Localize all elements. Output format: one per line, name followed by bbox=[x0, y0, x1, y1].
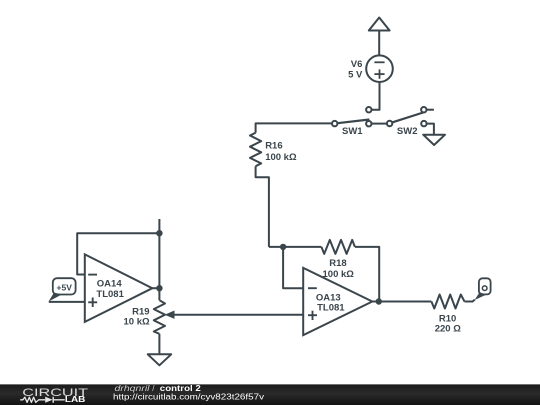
wire R16 bottom to node A bbox=[256, 166, 269, 247]
wire +5V flag to OA14 non-inverting input bbox=[49, 301, 85, 303]
switch SW2 bbox=[387, 107, 427, 126]
resistor R18 bbox=[321, 240, 355, 254]
feedback corner junction dot bbox=[156, 230, 162, 236]
label OA13 TL081 bbox=[316, 292, 345, 313]
node A junction dot bbox=[280, 244, 286, 250]
label R10 value bbox=[435, 313, 461, 334]
resistor R10 bbox=[431, 295, 464, 309]
wire R16 top to SW1 common bbox=[256, 123, 332, 132]
svg-text:100 kΩ: 100 kΩ bbox=[323, 269, 355, 280]
label R19 value bbox=[123, 307, 149, 328]
feedback wire OA14 output to inverting input bbox=[77, 233, 159, 286]
label R18 value bbox=[323, 258, 355, 280]
wire R19 bottom to ground bbox=[158, 334, 160, 355]
label OA14 TL081 bbox=[96, 278, 124, 300]
wire output dot down to R19 bbox=[158, 288, 160, 300]
switch SW1 bbox=[332, 107, 371, 126]
svg-text:TL081: TL081 bbox=[317, 303, 345, 314]
svg-text:SW1: SW1 bbox=[342, 126, 363, 137]
label R16 value bbox=[265, 141, 297, 163]
wire node A to R18 bbox=[269, 246, 322, 248]
power flag arrow (top) bbox=[369, 18, 390, 31]
svg-text:OA14: OA14 bbox=[97, 278, 123, 289]
label V6 value bbox=[348, 59, 363, 81]
footer bar bbox=[0, 384, 540, 405]
wire OA14 output bbox=[152, 287, 159, 289]
wire R18 right to output node bbox=[355, 247, 379, 300]
wire V6 top bbox=[378, 31, 380, 56]
svg-text:SW2: SW2 bbox=[397, 126, 418, 137]
wire SW2 bottom throw to ground bbox=[427, 124, 434, 135]
node flag +5V bbox=[49, 278, 76, 301]
wire V6 bottom to SW1 top throw bbox=[372, 82, 380, 110]
svg-text:5 V: 5 V bbox=[348, 70, 363, 81]
svg-text:+5V: +5V bbox=[57, 283, 73, 293]
resistor R16 bbox=[250, 133, 261, 167]
node flag o (output) bbox=[475, 278, 491, 300]
ground (right) bbox=[423, 135, 445, 145]
footer title text bbox=[115, 384, 202, 393]
stub wire SW2 top throw (dangling) bbox=[427, 109, 434, 111]
CircuitLab logo bbox=[20, 387, 88, 404]
svg-text:R18: R18 bbox=[329, 258, 346, 269]
potentiometer R19 bbox=[154, 300, 175, 334]
svg-text:220 Ω: 220 Ω bbox=[435, 324, 461, 335]
OA14 output junction dot bbox=[156, 285, 162, 291]
wire R10 to output flag bbox=[465, 300, 475, 302]
ground (left) bbox=[148, 354, 172, 365]
wire SW1 bottom throw to SW2 common bbox=[372, 123, 388, 125]
svg-text:R16: R16 bbox=[265, 141, 282, 152]
svg-text:100 kΩ: 100 kΩ bbox=[265, 152, 297, 163]
svg-text:LAB: LAB bbox=[65, 394, 86, 404]
wire stub above feedback corner bbox=[158, 219, 160, 233]
svg-text:V6: V6 bbox=[351, 59, 363, 70]
output node dot bbox=[376, 298, 382, 304]
op-amp OA13 bbox=[303, 268, 372, 335]
svg-text:10 kΩ: 10 kΩ bbox=[123, 317, 149, 328]
wire OA13 output to R10 bbox=[372, 301, 431, 303]
voltage source V6 bbox=[366, 55, 393, 82]
wire node A down to OA13 inverting input bbox=[283, 247, 303, 288]
svg-text:TL081: TL081 bbox=[96, 289, 124, 300]
wire R19 wiper to OA13 non-inverting input bbox=[174, 314, 303, 316]
op-amp OA14 bbox=[85, 254, 153, 322]
svg-text:http://circuitlab.com/cyv823t2: http://circuitlab.com/cyv823t26f57v bbox=[113, 392, 264, 401]
